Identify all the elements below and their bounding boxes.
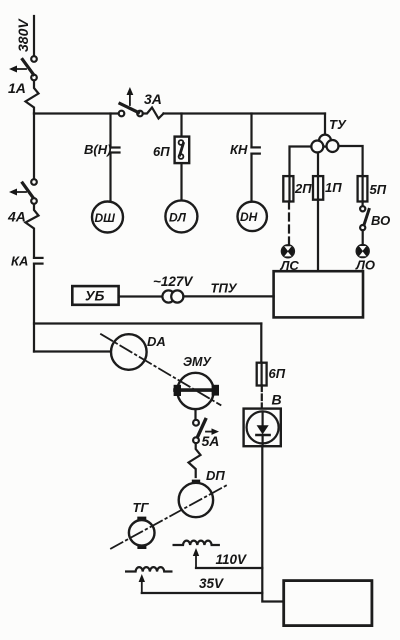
svg-text:ЭМУ: ЭМУ [183,355,212,369]
fuse 6P lower [257,363,286,386]
wire left vertical to 4A [33,114,35,180]
svg-text:DН: DН [240,210,258,224]
svg-text:DШ: DШ [95,211,116,225]
svg-text:4А: 4А [7,209,26,225]
svg-text:1П: 1П [325,180,342,195]
wire 6P to rectifier dashed [261,386,263,409]
wire 110V [196,552,262,568]
svg-text:35V: 35V [199,576,224,591]
lamp LO [355,245,375,273]
contact KA [11,254,43,269]
svg-text:ТУ: ТУ [329,117,347,132]
wire VO to LO [362,230,364,245]
shaft DA-EMU [101,334,221,405]
svg-text:DЛ: DЛ [169,211,187,225]
svg-text:ТГ: ТГ [133,500,150,515]
svg-text:В: В [272,392,282,408]
shaft TG-DP [111,485,228,549]
amplifier EMU [174,355,219,409]
arrow 35V tap [139,574,145,593]
wire branch V(N) [109,114,111,148]
svg-text:6П: 6П [153,144,170,159]
transformer 127V [153,274,193,303]
wire KA down to corner [33,264,35,352]
svg-text:ВО: ВО [371,213,390,228]
lamp LS [280,245,300,273]
wire EMU to 5A [194,409,196,420]
motor DN [238,202,267,231]
svg-text:1А: 1А [8,80,26,96]
wire 5P to VO [362,202,364,207]
svg-text:УБ: УБ [85,288,104,304]
wire bus corner to TU [324,114,326,135]
wire 1P to TPU block [317,200,319,272]
svg-text:DП: DП [206,468,225,483]
svg-text:5П: 5П [370,182,387,197]
wire branch 6P upper [180,114,182,137]
wire to DL [180,163,182,200]
wire branch KN [250,114,252,148]
resistor to DP [189,443,201,477]
svg-text:DА: DА [147,334,166,349]
wire to DSh [109,153,111,202]
wire UB to transformer [119,295,163,297]
wire TU right winding to 5P [339,146,363,176]
fuse below 4A [26,204,39,258]
wire to DA [34,350,111,352]
svg-text:380V: 380V [15,18,31,52]
svg-text:~127V: ~127V [153,274,193,289]
fuse below 1A [26,81,39,114]
svg-text:110V: 110V [216,552,248,567]
switch 5A [193,420,219,450]
switch 3A [119,87,162,116]
generator TG [129,500,155,549]
wire to DN [250,154,252,202]
fuse 2P [283,176,312,201]
fuse 6P upper [153,137,189,164]
winding 35V coil [126,567,171,571]
fuse 5P [358,176,387,201]
motor DA [111,334,166,370]
wire 35V [142,576,262,593]
wire main bus left [34,112,119,114]
winding 110V coil [174,541,219,545]
node 380V supply label [15,18,31,52]
block bottom right rectangle [284,581,372,626]
svg-text:В(Н): В(Н) [84,142,111,157]
switch VO [360,206,390,230]
wire corner down to 6P lower [260,324,262,363]
wire TU bottom winding to 1P [317,153,319,177]
svg-text:ТПУ: ТПУ [211,281,238,296]
svg-text:3А: 3А [144,91,162,107]
motor DSh [92,202,123,233]
svg-text:2П: 2П [294,181,312,196]
motor DP [179,468,226,517]
block TPU rectangle [274,271,363,317]
wire main bus right [164,112,326,114]
contact KN [230,142,260,157]
svg-text:5А: 5А [202,433,220,449]
wire tap to rectifier branch [34,322,261,324]
wire TU left winding to 2P [290,147,312,177]
fuse 1P [313,176,342,200]
rectifier V [244,392,282,447]
wire TPU feed [183,281,273,297]
svg-text:КА: КА [11,254,28,269]
contact V(N) [84,142,120,157]
svg-text:6П: 6П [269,366,286,381]
switch 4A [7,179,37,224]
transformer TU [311,117,347,153]
switch 1A [8,56,37,96]
brush DP [192,480,200,484]
svg-text:КН: КН [230,142,248,157]
arrow 110V tap [193,548,199,568]
block UB [72,286,118,305]
motor DL [165,200,197,232]
wire supply drop [33,16,35,56]
wire rectifier down and right to block [262,447,283,602]
fuse after 3A [143,108,164,119]
wire dashed to LS [288,202,290,245]
